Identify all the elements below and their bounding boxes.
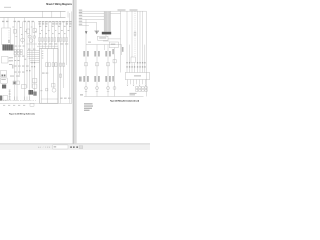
ECU labels above bbox=[38, 43, 68, 44]
inline connector a bbox=[85, 63, 88, 66]
wire label pairs upper bbox=[83, 47, 123, 57]
dropper 5 bbox=[137, 11, 139, 72]
control unit box bbox=[125, 73, 149, 80]
dropper 7 bbox=[142, 11, 144, 72]
motor M5 bbox=[33, 36, 36, 39]
dashed return line bbox=[0, 100, 36, 102]
harness bus edges bbox=[104, 11, 110, 32]
bottom right labels bbox=[60, 98, 71, 99]
dashed wire in fuse box bbox=[8, 30, 10, 43]
wire line inside ECU bottom bbox=[41, 98, 58, 100]
ground lug dark bbox=[0, 96, 2, 101]
ground symbol hatch bbox=[96, 31, 98, 33]
svg-text:Sheet 2: Wiring Diagrams: Sheet 2: Wiring Diagrams bbox=[46, 3, 73, 6]
branch wire 2 bbox=[96, 45, 98, 90]
dropper 1 bbox=[120, 11, 122, 72]
node label row second bbox=[39, 26, 71, 27]
ladder wire columns mid-page bbox=[40, 22, 55, 49]
wire stub row bbox=[108, 38, 121, 40]
notes line 4 bbox=[84, 110, 90, 111]
ECU inner left edge bbox=[40, 49, 42, 104]
contact on wire 60 bbox=[60, 63, 62, 66]
feeder line B bbox=[79, 13, 121, 15]
relay K1 bbox=[2, 57, 9, 64]
connector ticks bottom bbox=[85, 91, 109, 93]
ladder rungs far left bbox=[4, 18, 8, 29]
ground stub wire bbox=[96, 22, 98, 30]
lamp L1 bbox=[27, 29, 30, 33]
lamp L2 bbox=[33, 29, 36, 33]
wire tick marks row 1 bbox=[126, 62, 145, 63]
relay K1 labels bbox=[9, 57, 13, 61]
wires below control unit bbox=[128, 80, 146, 85]
wire below solenoid bbox=[132, 63, 135, 73]
feeder line A bbox=[79, 10, 147, 12]
page gap edge line bbox=[72, 0, 74, 144]
terminal T1 bbox=[46, 89, 48, 91]
wire ladder into ECU left bbox=[27, 51, 40, 63]
relay K2 contacts bbox=[2, 75, 4, 77]
connector cluster hatch bbox=[30, 90, 32, 95]
wire ends to ground bus bbox=[86, 90, 108, 96]
plug symbol d bbox=[113, 87, 116, 90]
feeder line D bbox=[79, 18, 104, 20]
wire above ECU bbox=[37, 45, 58, 47]
plug symbol b bbox=[96, 87, 99, 90]
ECU pin labels bbox=[42, 51, 44, 59]
branch wire 5 bbox=[121, 45, 123, 55]
connector dark cluster a bbox=[29, 90, 34, 95]
connector block dark bbox=[2, 45, 13, 51]
wire label pairs lower bbox=[79, 76, 114, 82]
branch wire 3 bbox=[107, 45, 109, 90]
terminal box bottom bbox=[30, 103, 34, 106]
fuse box F1 bbox=[2, 28, 11, 45]
branch wire 6 bbox=[104, 45, 106, 50]
motor M2 bbox=[28, 35, 31, 38]
labels mid-left row bbox=[9, 49, 35, 73]
bottom left labels bbox=[130, 93, 137, 95]
contact block A1 bbox=[46, 63, 48, 67]
zoom menu button bbox=[79, 146, 83, 149]
dropper 2 bbox=[126, 11, 128, 72]
contact block B2 bbox=[55, 63, 57, 67]
fuse on wire 135 bbox=[134, 32, 136, 36]
terminal column wire bbox=[9, 90, 11, 101]
connector pin grid bbox=[14, 50, 22, 55]
ground bus line bbox=[84, 95, 144, 97]
inline connector b bbox=[96, 63, 99, 66]
arrow on feeder drop bbox=[85, 31, 88, 34]
feeder labels bbox=[79, 10, 82, 25]
connector stubs bottom bbox=[15, 97, 30, 101]
pages background bbox=[0, 0, 150, 144]
toolbar top border bbox=[0, 143, 150, 145]
sensor B2 bbox=[33, 84, 37, 88]
motor M3 bbox=[29, 39, 33, 43]
wire ECU internal 2 bbox=[53, 49, 55, 89]
fuse element bbox=[8, 40, 10, 43]
feeder line F bbox=[79, 24, 89, 26]
splice bar dark bbox=[102, 32, 111, 35]
page number in box bbox=[54, 146, 57, 148]
sensor B1 bbox=[33, 79, 37, 83]
manifold wire bbox=[86, 44, 122, 46]
plug symbol c bbox=[107, 87, 110, 90]
junction label bbox=[99, 37, 106, 38]
resistor R1 bbox=[13, 81, 16, 85]
junction J2 label bbox=[111, 44, 116, 45]
dropper 6 bbox=[139, 11, 141, 72]
ladder mid tick labels bbox=[39, 33, 66, 34]
harness bus column bbox=[104, 11, 110, 32]
dropper 8 bbox=[144, 45, 146, 73]
svg-text:40 / 139: 40 / 139 bbox=[38, 147, 51, 149]
junction box J2 bbox=[109, 42, 118, 48]
control unit label bbox=[134, 75, 141, 76]
zoom in button bbox=[73, 146, 75, 148]
contact on wire 63 bbox=[63, 63, 65, 66]
wire bus to J1 bbox=[105, 34, 107, 36]
top line labels bbox=[118, 9, 138, 10]
zoom out button bbox=[70, 146, 72, 148]
switch S2 dark bbox=[2, 85, 6, 89]
ground symbol bbox=[94, 31, 99, 35]
relay K2 bbox=[1, 71, 7, 78]
contact block B1 bbox=[52, 63, 54, 67]
svg-text:Figure 2-60 Wiring Schematic: Figure 2-60 Wiring Schematic bbox=[9, 113, 36, 116]
ladder wire columns right bbox=[58, 11, 72, 103]
wire shelf right bbox=[27, 43, 38, 45]
ground label bbox=[80, 94, 83, 95]
fit page button bbox=[76, 146, 78, 148]
switch S1 box bbox=[1, 78, 8, 83]
feeder line C bbox=[79, 15, 104, 17]
terminal ticks column bbox=[9, 90, 11, 100]
label above manifold bbox=[88, 42, 91, 43]
inline connector d bbox=[113, 60, 116, 63]
wire ECU internal 1 bbox=[47, 49, 49, 104]
label in ECU 2 bbox=[46, 73, 49, 74]
page input box bbox=[53, 145, 69, 149]
solenoid Y1 bbox=[131, 57, 135, 63]
harness bus strands bbox=[106, 11, 110, 32]
diagram border right bbox=[145, 11, 147, 96]
connector block hatching bbox=[4, 45, 12, 51]
motor M4 bbox=[52, 88, 56, 92]
ECU box bbox=[40, 49, 59, 104]
bottom bus line bbox=[0, 102, 72, 104]
mid column tick labels bbox=[12, 27, 69, 38]
bottom toolbar band bbox=[0, 144, 150, 150]
label in ECU 1 bbox=[42, 73, 45, 74]
page gap shading bbox=[73, 0, 76, 144]
notes line 1 bbox=[84, 103, 93, 104]
notes line 3 bbox=[84, 108, 92, 109]
branch wire 1 bbox=[85, 45, 87, 90]
labels right of connector block bbox=[15, 46, 25, 47]
label lower-left pair bbox=[10, 76, 19, 77]
plug symbol a bbox=[85, 87, 88, 90]
feeder drop to manifold bbox=[85, 19, 87, 44]
switch S3 bbox=[22, 85, 27, 89]
diode D1 bbox=[14, 30, 17, 34]
resistor R2 bbox=[17, 81, 20, 85]
wire ticks right column bbox=[26, 62, 35, 71]
wire label top-left bbox=[4, 7, 11, 8]
resistor fill marks bbox=[13, 82, 15, 84]
connector dark cluster b bbox=[33, 92, 36, 96]
power bus line 2 bbox=[0, 17, 66, 19]
contact block A2 bbox=[48, 63, 50, 67]
coil box bbox=[52, 84, 56, 88]
dropper 3 bbox=[129, 45, 131, 73]
branch wire 4 bbox=[114, 48, 116, 97]
wire tick marks row 2 bbox=[126, 66, 145, 67]
notes line 2 bbox=[84, 106, 93, 107]
dashed control wire bbox=[134, 11, 136, 57]
contact lower bbox=[60, 74, 62, 77]
terminal grid bottom bbox=[136, 87, 148, 92]
connector arrows bbox=[127, 85, 146, 86]
svg-text:Figure 2-61 Wiring Schematic (: Figure 2-61 Wiring Schematic (Continued) bbox=[110, 100, 139, 103]
wire mid horizontal bbox=[103, 40, 109, 42]
wire drops bus1 to bus2 bbox=[42, 11, 68, 17]
feeder line E bbox=[79, 21, 97, 23]
power bus line 1 bbox=[0, 10, 66, 12]
junction box bottom-left bbox=[3, 96, 8, 101]
left vertical wires bbox=[15, 18, 35, 101]
relay K1 stubs bbox=[8, 58, 11, 61]
node label row upper bbox=[2, 21, 72, 25]
ladder component row rects bbox=[39, 38, 68, 42]
junction box J1 bbox=[98, 36, 109, 40]
tick left of motor bbox=[41, 90, 43, 91]
switch S1 label bbox=[1, 79, 6, 80]
dropper 4 bbox=[131, 11, 133, 57]
inline connector c bbox=[107, 63, 110, 66]
bottom tick labels bbox=[3, 105, 25, 106]
motor M1 bbox=[21, 38, 25, 42]
